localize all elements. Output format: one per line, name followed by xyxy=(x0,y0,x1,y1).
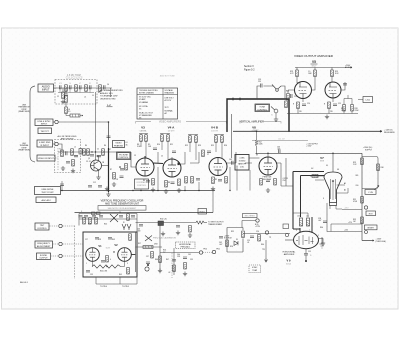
wire below trap xyxy=(65,103,67,107)
capacitor C12 xyxy=(88,186,92,187)
anode line xyxy=(342,209,362,211)
capacitor C27 xyxy=(84,216,88,217)
label C13 xyxy=(258,79,261,83)
svg-text:C2: C2 xyxy=(57,96,59,98)
tube label V4A xyxy=(168,126,176,133)
small marks below note box xyxy=(92,212,101,215)
note line terminal strip xyxy=(18,105,31,114)
line sync input box xyxy=(35,119,53,126)
svg-text:47: 47 xyxy=(109,149,111,151)
junction dot bus xyxy=(256,131,258,133)
svg-text:RECTIFIER: RECTIFIER xyxy=(245,216,256,218)
svg-text:V8: V8 xyxy=(139,117,141,119)
svg-text:.01: .01 xyxy=(247,242,249,244)
terminal TP4 xyxy=(212,250,215,253)
right mid sub labels xyxy=(203,249,220,251)
svg-text:1.0M: 1.0M xyxy=(341,110,345,112)
svg-text:TINT: TINT xyxy=(40,225,45,227)
lamp W2 xyxy=(127,224,131,230)
svg-text:TEST POINT: TEST POINT xyxy=(41,192,54,194)
svg-text:SEE NOTE 3 FOR ALIGNMENT: SEE NOTE 3 FOR ALIGNMENT xyxy=(108,207,137,210)
svg-text:R60: R60 xyxy=(320,227,323,229)
V2 output lead xyxy=(131,254,135,256)
wire V4B plate right xyxy=(227,152,253,163)
svg-text:Figure 5-2: Figure 5-2 xyxy=(244,69,255,72)
capacitor C8 xyxy=(74,155,78,156)
svg-text:KINE DRIVE: KINE DRIVE xyxy=(42,189,54,191)
svg-text:1: 1 xyxy=(86,263,87,265)
resistor R49 xyxy=(184,263,187,270)
svg-text:V2: V2 xyxy=(114,243,118,247)
mid bottom vertical x135 xyxy=(135,232,137,272)
capacitor C46 on screen line xyxy=(279,150,280,154)
wire y252 xyxy=(160,252,199,254)
plate resistor R25 xyxy=(331,70,334,77)
svg-text:TONE: TONE xyxy=(259,107,265,109)
video if input box xyxy=(37,155,55,161)
label box 4.5mc xyxy=(249,265,261,273)
svg-text:C5: C5 xyxy=(161,156,163,158)
svg-text:R40: R40 xyxy=(104,224,107,226)
wire loop to rect xyxy=(243,233,290,235)
label kine pins xyxy=(311,168,346,185)
wire V8 plate right xyxy=(276,158,293,186)
svg-text:Q1: Q1 xyxy=(88,158,90,160)
svg-text:R12: R12 xyxy=(185,145,188,147)
capacitor C26 xyxy=(250,236,254,237)
wire into kine xyxy=(332,153,334,172)
trap input rail wire xyxy=(57,87,96,89)
secondary line xyxy=(252,140,308,142)
sound if input box xyxy=(37,140,53,147)
dashed wire T1 xyxy=(50,225,75,227)
note uhf terminal strip xyxy=(18,143,30,152)
svg-text:ADJUSTMENT: ADJUSTMENT xyxy=(37,245,51,248)
capacitor C30 xyxy=(119,216,123,217)
video amplifiers brace xyxy=(136,122,227,124)
junction node A xyxy=(95,151,96,152)
capacitor C43 xyxy=(139,225,143,226)
wire link xyxy=(212,191,214,213)
dot junctions inner xyxy=(106,266,107,267)
tube label V8 xyxy=(252,126,257,133)
svg-text:C3: C3 xyxy=(134,155,136,157)
svg-text:READINGS: READINGS xyxy=(165,92,175,95)
junction dots sync bus xyxy=(108,190,231,192)
capacitor C39 xyxy=(183,257,187,258)
wire Q1 output xyxy=(102,165,109,167)
plate rail tap V3 xyxy=(139,134,148,159)
resistor R8 xyxy=(140,135,143,142)
svg-text:R26: R26 xyxy=(286,91,289,93)
svg-text:(REAR VIEW): (REAR VIEW) xyxy=(18,110,30,113)
svg-text:TP10: TP10 xyxy=(203,249,207,251)
label horizontal amplifier xyxy=(283,251,297,256)
dashed link TPs xyxy=(203,251,212,253)
svg-text:R47: R47 xyxy=(166,259,169,261)
wire V5A plate xyxy=(297,77,315,91)
svg-text:FREQUENCY: FREQUENCY xyxy=(37,243,50,245)
svg-text:CONTROL: CONTROL xyxy=(137,185,146,187)
triode V5B xyxy=(325,82,341,98)
ground x160 xyxy=(158,269,162,273)
vert lin box xyxy=(365,190,376,195)
svg-text:L11: L11 xyxy=(306,216,309,218)
capacitor C58 xyxy=(323,221,327,222)
plate resistor R24 xyxy=(314,70,317,77)
wire vertical feed V4B xyxy=(231,114,233,158)
capacitor C48 xyxy=(120,169,124,170)
svg-text:TP11: TP11 xyxy=(216,249,220,251)
ground dot V9 xyxy=(305,260,307,262)
capacitor C22 xyxy=(343,84,347,85)
svg-text:AT 117V: AT 117V xyxy=(165,99,172,102)
label bus arrow xyxy=(384,130,396,134)
V9 right lead to ground xyxy=(319,239,324,242)
label under terminal xyxy=(255,224,261,228)
resistor R5 xyxy=(87,149,90,156)
pot arrow xyxy=(374,186,379,191)
bypass loop xyxy=(362,157,378,189)
svg-text:V LIN: V LIN xyxy=(368,192,373,194)
capacitor C23 xyxy=(291,94,292,98)
svg-text:C6: C6 xyxy=(107,84,109,86)
tint control box xyxy=(35,223,49,230)
svg-text:D1: D1 xyxy=(236,239,238,241)
horiz takeoff label small texts xyxy=(247,237,272,246)
svg-text:R2: R2 xyxy=(98,92,100,94)
svg-text:7: 7 xyxy=(309,230,310,232)
junction terminal xyxy=(265,231,268,234)
resistor R3 below trap xyxy=(65,107,68,114)
svg-text:TRANSFORMER: TRANSFORMER xyxy=(208,223,223,226)
labels right of funnel xyxy=(318,218,323,229)
label loop xyxy=(224,236,232,240)
transistor Q1 sync separator xyxy=(91,160,102,171)
svg-text:C1 L1 C2 L2 C3: C1 L1 C2 L2 C3 xyxy=(66,78,83,80)
sound takeoff box xyxy=(235,155,249,171)
L201 box xyxy=(363,97,373,103)
svg-text:VIDEO IF INPUT: VIDEO IF INPUT xyxy=(38,158,54,160)
terminal T3 xyxy=(59,254,62,257)
resistor R10 xyxy=(161,135,164,142)
resistor R1 xyxy=(65,96,68,103)
svg-text:V 9: V 9 xyxy=(287,259,291,263)
dashed wire T2 xyxy=(53,243,84,245)
V5 plate rail xyxy=(295,68,345,71)
svg-text:A1: A1 xyxy=(344,182,346,185)
label supply mid xyxy=(306,144,319,148)
capacitor C37 xyxy=(146,262,150,263)
svg-text:CONTRAST: CONTRAST xyxy=(136,181,147,184)
svg-text:.068: .068 xyxy=(137,231,140,233)
svg-text:L4: L4 xyxy=(84,97,86,99)
grid cap C34 xyxy=(108,238,112,239)
value labels row xyxy=(157,144,227,147)
svg-text:IN THIS CHASSIS: IN THIS CHASSIS xyxy=(139,92,155,95)
capacitor C3 xyxy=(80,85,81,89)
resistor R9 xyxy=(145,135,148,142)
label to vert output xyxy=(208,222,224,226)
svg-text:L5: L5 xyxy=(74,147,76,149)
note text external resistors xyxy=(100,89,123,100)
wire to L201 xyxy=(358,99,363,101)
svg-text:C55: C55 xyxy=(308,251,311,253)
label C43 xyxy=(137,229,140,233)
value labels b plus cluster xyxy=(231,231,265,251)
resistor R22 xyxy=(285,101,288,108)
svg-text:G2: G2 xyxy=(311,168,313,170)
ground V4B xyxy=(211,187,215,191)
plate rail tap V4A xyxy=(160,134,170,160)
heavy vertical bus left xyxy=(108,122,110,148)
svg-text:L-2: L-2 xyxy=(107,103,111,107)
4.5 MC trap dashed enclosure xyxy=(55,80,97,105)
osc top rail A xyxy=(79,213,137,215)
neck lead xyxy=(330,206,342,210)
dropper from bus xyxy=(256,131,258,154)
kine grid resistor xyxy=(312,175,318,178)
svg-text:R43: R43 xyxy=(112,239,115,241)
wire R27 R28 tops xyxy=(344,95,352,114)
value labels v1v2 box xyxy=(85,239,128,276)
svg-text:T2: T2 xyxy=(119,212,121,214)
svg-text:R8: R8 xyxy=(168,182,170,184)
svg-text:C40: C40 xyxy=(177,254,180,256)
value labels V3 plate xyxy=(137,144,152,148)
resistor R27 xyxy=(343,105,346,112)
horizontal resistor R44 xyxy=(143,246,153,249)
wire V8 plate to screen line xyxy=(267,153,269,157)
frequency adjust box xyxy=(35,241,53,248)
junction dot pc xyxy=(119,166,121,168)
svg-text:G3: G3 xyxy=(337,169,339,171)
svg-text:R54 C45: R54 C45 xyxy=(160,219,167,221)
wire stub x110 xyxy=(110,88,112,97)
svg-text:TP5: TP5 xyxy=(262,249,265,251)
coil box L13 xyxy=(158,221,164,226)
svg-text:R6: R6 xyxy=(104,145,106,147)
ground heavy bus xyxy=(106,192,110,196)
value labels filter area xyxy=(59,145,111,163)
coil L2 xyxy=(75,85,78,92)
svg-text:R61: R61 xyxy=(356,175,359,177)
value labels bottom mid xyxy=(138,243,193,274)
wire tube bottoms xyxy=(92,261,125,266)
svg-text:TOLERANCE 1/2W: TOLERANCE 1/2W xyxy=(100,95,118,98)
terminal T2 xyxy=(59,242,62,245)
svg-text:2: 2 xyxy=(318,235,319,237)
all filters dashed enclosure xyxy=(55,140,81,173)
svg-text:SOURCE: SOURCE xyxy=(224,238,232,240)
svg-text:INPUT: INPUT xyxy=(41,124,48,126)
svg-text:4.5MC: 4.5MC xyxy=(239,158,245,160)
capacitor C24 xyxy=(302,104,306,105)
svg-text:3.9: 3.9 xyxy=(68,111,70,113)
capacitor C1 xyxy=(60,85,61,89)
svg-text:HOLD: HOLD xyxy=(200,211,206,213)
svg-text:.005: .005 xyxy=(277,149,280,151)
grid cap C35 xyxy=(95,238,99,239)
V9 plate leads up xyxy=(293,217,312,233)
dashed wire T3 xyxy=(51,255,84,257)
ground top row xyxy=(161,232,165,236)
pentode V8 xyxy=(259,157,277,175)
coil L3 xyxy=(85,85,88,92)
svg-text:22: 22 xyxy=(97,149,99,151)
svg-text:3: 3 xyxy=(127,263,128,265)
svg-text:V7: V7 xyxy=(320,156,324,160)
terminal TP3 xyxy=(199,251,202,254)
label all filters xyxy=(58,135,77,140)
long wire osc bus xyxy=(75,212,214,214)
svg-text:BH-54-1: BH-54-1 xyxy=(20,282,29,284)
video peaking box xyxy=(113,141,125,148)
svg-text:.047: .047 xyxy=(318,220,321,222)
lamp W1 xyxy=(122,224,126,230)
capacitor C61 xyxy=(79,216,83,217)
terminal T1 xyxy=(59,224,62,227)
capacitor C38 xyxy=(172,260,176,261)
svg-text:IF INPUT: IF INPUT xyxy=(40,145,49,147)
ground filter xyxy=(61,166,65,170)
capacitor C10 xyxy=(107,136,111,137)
zigzag resistor R53 xyxy=(196,221,207,224)
dashed stub xyxy=(55,148,58,170)
wire B plus adjust arrow xyxy=(345,67,352,68)
svg-text:V3: V3 xyxy=(141,126,145,130)
svg-text:C33: C33 xyxy=(90,274,93,276)
svg-text:S2: S2 xyxy=(271,115,273,117)
junction dot filter xyxy=(91,151,92,152)
capacitor C62 xyxy=(60,184,64,185)
ground V8 xyxy=(266,188,270,192)
V9 cathode cap xyxy=(304,254,308,255)
svg-text:CONTROL: CONTROL xyxy=(257,109,268,111)
svg-text:36: 36 xyxy=(126,145,128,147)
dashed drop xyxy=(171,253,173,278)
svg-text:FREQ DIAL CALIBRATION: FREQ DIAL CALIBRATION xyxy=(153,236,177,239)
resistor R35 xyxy=(242,231,245,238)
junction circle TP1 xyxy=(364,206,367,209)
resistor R30 xyxy=(377,164,380,171)
cathode resistor V8 xyxy=(260,179,263,186)
resistor R56 xyxy=(72,160,75,167)
wire S2 ground xyxy=(275,113,277,117)
cathode resistor V3b xyxy=(152,179,155,186)
svg-text:470: 470 xyxy=(59,83,62,85)
resistor R19 xyxy=(191,177,194,184)
svg-text:C26: C26 xyxy=(256,231,259,233)
svg-text:T1: T1 xyxy=(59,149,61,151)
svg-text:C12: C12 xyxy=(93,182,96,184)
horizontal resistor R3b xyxy=(66,114,83,118)
plate resistor R23 xyxy=(296,70,299,77)
svg-text:+270: +270 xyxy=(348,222,352,224)
label vertical amplifier xyxy=(239,120,264,123)
resistor R47 xyxy=(159,256,162,263)
svg-text:AND TONE GENERATOR UNIT: AND TONE GENERATOR UNIT xyxy=(105,202,140,205)
capacitor C49 xyxy=(90,155,94,156)
resistor R7 xyxy=(113,173,116,180)
agc box xyxy=(36,197,56,203)
resistor bank R38 xyxy=(83,218,86,225)
svg-text:C25: C25 xyxy=(338,103,341,105)
wire takeoff to V8 xyxy=(249,157,260,159)
svg-text:C63: C63 xyxy=(229,159,232,161)
svg-text:ARE SHOWN: ARE SHOWN xyxy=(61,137,74,140)
svg-text:V5: V5 xyxy=(139,109,141,111)
capacitor C28 xyxy=(92,216,96,217)
svg-text:R4: R4 xyxy=(85,145,87,147)
coil L4 vertical xyxy=(62,92,65,99)
rail verticals xyxy=(79,214,137,233)
svg-text:V4 5 6T9A: V4 5 6T9A xyxy=(139,105,148,108)
below box label xyxy=(100,286,129,288)
svg-text:R44 2.2M: R44 2.2M xyxy=(100,271,108,273)
terminal V9 input xyxy=(285,233,288,236)
resistor R17 xyxy=(178,179,181,186)
label R3 xyxy=(68,109,70,113)
vertical amplifier brace xyxy=(240,122,281,124)
svg-text:1/2 6T9: 1/2 6T9 xyxy=(168,131,176,133)
svg-text:R9: R9 xyxy=(215,179,217,181)
svg-text:R35: R35 xyxy=(231,231,234,233)
kine grid wires xyxy=(310,176,348,193)
svg-text:C39: C39 xyxy=(190,259,193,261)
svg-text:TO PIN 4: TO PIN 4 xyxy=(100,286,107,288)
value labels trap area xyxy=(57,84,109,99)
tone control box xyxy=(255,104,270,112)
ground R17 xyxy=(177,188,181,192)
wire V5B plate xyxy=(332,77,345,91)
resistor R2 xyxy=(99,85,102,92)
resistor R18 xyxy=(185,177,188,184)
svg-text:R10: R10 xyxy=(157,144,160,146)
grid components V5A xyxy=(288,90,295,93)
svg-text:C27: C27 xyxy=(85,239,88,241)
capacitor C6 xyxy=(104,85,105,89)
svg-text:V2 AMP: V2 AMP xyxy=(139,98,146,101)
label rail bottom xyxy=(376,239,387,243)
svg-text:EXTERNAL RESISTORS: EXTERNAL RESISTORS xyxy=(100,89,123,92)
svg-text:1/2 6T9: 1/2 6T9 xyxy=(211,131,219,133)
wire down to ground xyxy=(265,240,267,258)
capacitor C63 xyxy=(232,161,233,165)
svg-text:C7: C7 xyxy=(207,154,209,156)
svg-text:6: 6 xyxy=(110,259,111,261)
svg-text:R7: R7 xyxy=(110,169,112,171)
junction blob V4A plate xyxy=(178,163,180,166)
svg-text:ARE ALL 10%: ARE ALL 10% xyxy=(100,92,113,95)
svg-text:220: 220 xyxy=(258,81,261,83)
svg-text:PEAKING: PEAKING xyxy=(114,144,123,147)
mid return line xyxy=(331,224,362,232)
svg-text:10: 10 xyxy=(92,95,94,97)
V5 cathode rail xyxy=(287,98,358,114)
ground V3b xyxy=(151,188,155,192)
capacitor C13 switch xyxy=(261,84,262,88)
terminal bottom mid xyxy=(145,267,149,271)
height box xyxy=(366,211,376,216)
wire switch loop xyxy=(257,86,274,99)
resistor R20 xyxy=(225,177,228,184)
wire V4A plate to V4B xyxy=(172,152,199,164)
resistor R13 xyxy=(195,136,198,143)
plate rail tap V4B xyxy=(188,135,198,161)
svg-text:BRIGHT: BRIGHT xyxy=(368,228,374,230)
switch S2 xyxy=(271,107,278,113)
